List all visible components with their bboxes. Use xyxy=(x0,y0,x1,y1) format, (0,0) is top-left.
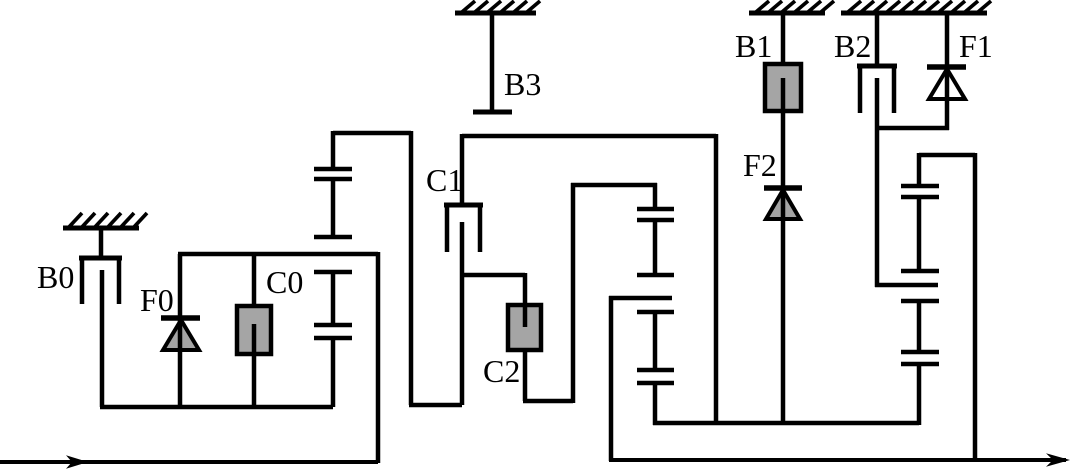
wire (left bottom rail) xyxy=(100,405,333,410)
brake B3 xyxy=(473,13,512,112)
wire (right outer vertical x=975) xyxy=(973,153,978,461)
wire (left top rail) xyxy=(178,252,378,257)
wire (C2 bottom rail) xyxy=(523,399,573,404)
gear pair (lower, column x=919) xyxy=(901,301,939,425)
svg-text:B1: B1 xyxy=(735,28,772,64)
wire (big top rail) xyxy=(462,134,716,139)
wire (C0 upper lead) xyxy=(252,254,257,308)
ground (B2 / F1 mount) xyxy=(841,1,991,13)
wire (C2 lower lead) xyxy=(523,350,528,401)
svg-text:C2: C2 xyxy=(483,353,520,389)
wire (C1 to C2 link) xyxy=(462,273,525,278)
wire (vertical x=411 down to U rail) xyxy=(409,131,414,405)
one-way clutch F1 xyxy=(927,67,966,101)
wire (B2 hub rail) xyxy=(875,283,938,288)
one-way clutch F2 xyxy=(764,188,802,221)
wire (C2 upper lead) xyxy=(523,273,528,307)
clutch C1 xyxy=(444,134,483,252)
svg-text:F1: F1 xyxy=(959,28,993,64)
wire (F1 lower lead) xyxy=(945,97,950,130)
ground (B0 mount) xyxy=(63,213,147,228)
brake B1 xyxy=(765,64,801,111)
ground (B1 mount) xyxy=(749,1,834,13)
wire (middle carrier rail) xyxy=(609,296,672,301)
wire (upper-left horizontal link) xyxy=(333,131,411,136)
wire (F0 upper lead) xyxy=(178,254,183,318)
svg-text:B0: B0 xyxy=(37,259,74,295)
one-way clutch F0 xyxy=(161,318,200,352)
clutch C2 xyxy=(508,304,541,350)
wire (inner bottom rail) xyxy=(653,421,919,426)
gear pair (upper, column x=655) xyxy=(637,183,674,277)
gear pair (upper, column x=333) xyxy=(314,131,352,239)
gear pair (lower, column x=333) xyxy=(314,272,352,407)
wire (U bottom rail) xyxy=(409,403,462,408)
wire (F0 lower lead) xyxy=(178,348,183,407)
output shaft wire with arrow xyxy=(609,453,1070,467)
svg-text:F0: F0 xyxy=(140,282,174,318)
wire (F1 upper lead) xyxy=(945,13,950,67)
wire (right top rail) xyxy=(919,153,975,158)
svg-text:B3: B3 xyxy=(504,66,541,102)
input shaft wire with arrow xyxy=(0,455,378,469)
wire (vertical x=573) xyxy=(571,183,576,403)
svg-text:C1: C1 xyxy=(426,162,463,198)
ground (B3 mount) xyxy=(455,1,540,13)
gear pair (lower, column x=655) xyxy=(637,312,674,425)
wire (B0 hub down to bottom rail) xyxy=(100,270,105,407)
svg-text:C0: C0 xyxy=(266,264,303,300)
wire (vertical x=611 to output rail) xyxy=(609,296,614,461)
brake B0 xyxy=(79,228,122,304)
wire (C1 hub vertical) xyxy=(460,222,465,405)
svg-text:F2: F2 xyxy=(743,147,777,183)
wire (middle bridge rail) xyxy=(571,183,657,188)
clutch C0 xyxy=(237,306,271,407)
wire (F1 to B2 link) xyxy=(875,126,949,131)
wire (B1 hub down through F2 to inner rail) xyxy=(781,78,786,425)
svg-text:B2: B2 xyxy=(834,28,871,64)
gear pair (upper, column x=919) xyxy=(901,153,939,273)
wire (B2 hub vertical) xyxy=(875,78,880,287)
brake B2 xyxy=(857,13,897,113)
wire (left box right side vertical) xyxy=(376,252,381,463)
wire (big rail right side vertical x=716) xyxy=(714,134,719,423)
wire (B1 upper lead) xyxy=(781,13,786,66)
